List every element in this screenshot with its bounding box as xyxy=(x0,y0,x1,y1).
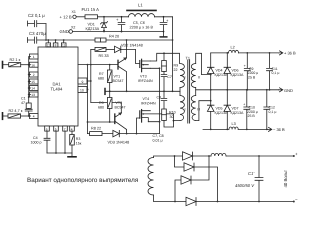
pin 10 xyxy=(78,87,87,93)
diode VD1 xyxy=(86,16,108,32)
svg-text:1000 p: 1000 p xyxy=(31,141,42,145)
diode VD4 xyxy=(207,53,228,90)
terminal X2 GND xyxy=(60,25,164,34)
diode VD7 xyxy=(224,90,244,131)
svg-text:R2 1 к: R2 1 к xyxy=(10,58,21,62)
capacitor C5 xyxy=(116,16,125,33)
svg-text:680: 680 xyxy=(98,106,104,110)
capacitor C11 0.1u xyxy=(267,52,280,91)
svg-text:BC547: BC547 xyxy=(115,105,126,109)
resistor R9 680 chain x=109.7 xyxy=(98,91,112,123)
svg-text:+: + xyxy=(295,152,298,157)
wire VT4 drain to transformer bottom xyxy=(174,114,181,121)
svg-text:+: + xyxy=(244,64,247,68)
wire primary center tap xyxy=(179,88,181,96)
svg-text:C3 470μ: C3 470μ xyxy=(29,31,46,36)
node GND arrow xyxy=(279,88,294,93)
resistor R2 1k (to pin 16) xyxy=(3,58,31,68)
svg-text:VD6: VD6 xyxy=(232,69,239,73)
svg-text:11: 11 xyxy=(62,44,66,48)
pin 9 xyxy=(78,78,87,84)
transformer T1 core xyxy=(188,60,190,123)
svg-text:C7, C8: C7, C8 xyxy=(153,134,164,138)
svg-text:R3: R3 xyxy=(76,137,81,141)
fuse FU1 15A xyxy=(82,7,129,19)
wire +12V distribution line y=40 xyxy=(46,39,173,41)
wire secondary center tap xyxy=(195,88,197,96)
wire -36V rail xyxy=(203,128,268,130)
ground symbol primary xyxy=(160,31,167,37)
svg-text:R2 4,7 к: R2 4,7 к xyxy=(9,109,23,113)
variant inductor L xyxy=(211,153,226,156)
svg-text:22: 22 xyxy=(174,68,178,72)
svg-text:КД213А: КД213А xyxy=(231,73,245,77)
svg-text:FU1 15 A: FU1 15 A xyxy=(82,7,100,12)
diode VD6 xyxy=(224,52,244,91)
variant rectifier diode D4 xyxy=(154,195,294,206)
svg-text:R9: R9 xyxy=(99,101,104,105)
transistor Q1 VT1 BC547 xyxy=(113,39,128,91)
node -36 arrow xyxy=(268,127,286,132)
svg-text:R5 33: R5 33 xyxy=(99,54,109,58)
pin 6 (bottom) xyxy=(45,126,50,131)
wire pin 7 down xyxy=(64,131,66,153)
transformer T1 primary winding bottom (I) xyxy=(180,96,186,121)
snubber R9 22 + C7 xyxy=(161,52,178,91)
wire variant top rail xyxy=(154,156,294,158)
wire pin10 stub xyxy=(86,89,89,91)
wire GND rail xyxy=(196,89,279,91)
svg-text:16: 16 xyxy=(31,63,35,67)
variant rectifier diode D2 xyxy=(175,156,218,202)
wire pin1 link xyxy=(29,56,31,64)
wire VT3/VT4 source bus x=159.5 xyxy=(148,68,159,133)
svg-text:C4: C4 xyxy=(33,136,38,140)
pin 16 xyxy=(30,62,39,67)
svg-text:12: 12 xyxy=(47,44,51,48)
svg-text:GND: GND xyxy=(284,88,293,93)
wire left vertical bus x=28.7 xyxy=(28,65,30,97)
variant transformer winding xyxy=(148,158,154,196)
terminal X1 +12V xyxy=(60,10,86,19)
svg-text:L1: L1 xyxy=(138,3,143,8)
node + output xyxy=(293,155,295,157)
svg-text:10: 10 xyxy=(80,89,84,93)
svg-text:14: 14 xyxy=(31,87,35,91)
capacitor C9 2200u xyxy=(244,52,259,91)
svg-text:+ 12 В: + 12 В xyxy=(60,14,72,19)
wire secondary bottom end to VD5 row xyxy=(196,101,211,121)
wire vertical x=87.5 (pin10 feed down) xyxy=(87,65,89,134)
svg-text:C8: C8 xyxy=(157,95,162,99)
transistor Q2 VT2 BC547 xyxy=(115,101,127,134)
diode VD3 1N4148 xyxy=(108,130,130,144)
inductor L2 xyxy=(229,46,239,53)
svg-text:L2: L2 xyxy=(231,46,235,50)
svg-text:0,1 μ: 0,1 μ xyxy=(269,110,277,114)
wire ground bus under IC xyxy=(47,152,72,154)
inductor L1 with core xyxy=(127,3,156,17)
svg-text:2: 2 xyxy=(33,73,35,77)
svg-text:2200 μ x 16 В: 2200 μ x 16 В xyxy=(130,25,154,29)
pin 12 xyxy=(46,43,51,48)
pin 8 xyxy=(53,43,58,48)
svg-text:13: 13 xyxy=(31,93,35,97)
capacitor C1 + resistor R1 chain (pin3 compensation) xyxy=(21,96,32,116)
svg-text:КД213А: КД213А xyxy=(86,27,100,31)
capacitor C2 xyxy=(28,13,47,27)
pin 2 xyxy=(30,72,39,77)
svg-text:II: II xyxy=(198,76,200,80)
svg-text:L3: L3 xyxy=(232,122,236,126)
pin 4 xyxy=(30,114,39,119)
svg-text:9: 9 xyxy=(82,80,84,84)
pin 1 xyxy=(30,54,39,59)
capacitor C6 xyxy=(130,16,170,32)
svg-text:VD2 1N4148: VD2 1N4148 xyxy=(121,44,143,48)
svg-text:25 В: 25 В xyxy=(248,114,256,118)
svg-text:X1: X1 xyxy=(72,10,76,14)
node pin15 xyxy=(29,81,31,83)
node pin14 xyxy=(29,87,31,89)
transistor Q3 VT3 IRFZ44N (mosfet) xyxy=(138,59,153,83)
resistor R4 4.7k (to pin 4) xyxy=(3,109,31,119)
svg-text:25 В: 25 В xyxy=(248,75,256,79)
svg-text:VD7: VD7 xyxy=(232,107,239,111)
wire row D y=133.6 (gate drive low side) xyxy=(88,133,160,135)
svg-text:VD5: VD5 xyxy=(216,107,223,111)
svg-text:680: 680 xyxy=(98,77,104,81)
svg-text:I: I xyxy=(185,76,186,80)
wire VT2 collector link row y=102.6 xyxy=(91,81,122,113)
svg-text:−: − xyxy=(295,197,298,202)
svg-text:30: 30 xyxy=(170,115,174,119)
node - output xyxy=(293,201,295,203)
wire C2-C3 junction to +12V bus xyxy=(45,24,47,40)
diode VD5 xyxy=(207,89,228,130)
ground symbol under IC xyxy=(68,153,76,157)
transformer T1 secondary winding top (II) xyxy=(191,64,200,88)
svg-text:40 Вольт: 40 Вольт xyxy=(283,170,288,188)
variant capacitor C1' xyxy=(235,155,263,202)
pin 13 xyxy=(30,92,39,97)
svg-text:R4 20: R4 20 xyxy=(109,35,119,39)
svg-text:VD4: VD4 xyxy=(216,69,223,73)
snubber C8 + R10 22 xyxy=(157,90,176,127)
svg-text:+: + xyxy=(243,103,246,107)
svg-text:КД213А: КД213А xyxy=(231,111,245,115)
resistor R8 22 (gate) xyxy=(90,127,102,136)
pin 11 xyxy=(61,43,66,48)
resistor R4 20 (collector load VT1) xyxy=(95,35,119,43)
svg-text:4: 4 xyxy=(33,115,35,119)
svg-text:VD3 1N4148: VD3 1N4148 xyxy=(108,141,130,145)
wire secondary top end to VD4 anode row xyxy=(196,53,211,74)
resistor R7 680 (base-emitter VT1) xyxy=(98,64,112,93)
svg-text:1: 1 xyxy=(33,55,35,59)
svg-text:BC547: BC547 xyxy=(113,79,124,83)
wire +36V rail xyxy=(211,52,279,54)
capacitor C3 xyxy=(28,31,47,43)
wire L1 out to corner xyxy=(155,16,173,18)
svg-text:15: 15 xyxy=(31,80,35,84)
svg-text:IRFZ44N: IRFZ44N xyxy=(141,102,156,106)
wire row A base VT1 y=64.6 xyxy=(78,64,118,66)
wire gate riser VT4 xyxy=(137,118,140,134)
svg-text:8: 8 xyxy=(55,44,57,48)
transformer T1 secondary winding bottom (III) xyxy=(191,96,200,121)
svg-text:GND: GND xyxy=(60,29,69,34)
inductor L3 xyxy=(229,122,238,129)
svg-text:C1': C1' xyxy=(248,171,254,176)
pin 4a (bottom) xyxy=(70,126,75,131)
wire pin11 stub xyxy=(63,40,65,43)
node pin13 xyxy=(29,94,31,96)
capacitor C12 0.1u xyxy=(264,89,277,130)
diode VD2 1N4148 xyxy=(115,44,143,64)
pin 5 (bottom) xyxy=(54,126,59,131)
svg-text:C7: C7 xyxy=(167,75,172,79)
variant rectifier diode D1 xyxy=(192,152,194,160)
transistor Q4 VT4 IRFZ44N (mosfet) xyxy=(140,97,174,122)
svg-text:4500/50 V: 4500/50 V xyxy=(235,183,255,188)
svg-text:R8 22: R8 22 xyxy=(91,127,101,131)
capacitor C4 1000p (pin 6) xyxy=(31,131,51,153)
wire +12V vertical feed to transformer center tap xyxy=(172,17,174,92)
node +36 arrow xyxy=(279,51,297,56)
wire pin 5 down xyxy=(55,131,57,153)
capacitor C10 2200u xyxy=(243,89,258,130)
wire VT3 drain to transformer top xyxy=(150,53,179,63)
wire pin8 stub xyxy=(55,40,57,43)
svg-text:I: I xyxy=(185,108,186,112)
svg-text:X2: X2 xyxy=(71,25,75,29)
svg-text:47: 47 xyxy=(21,101,25,105)
wire pin12 stub xyxy=(47,40,49,43)
wire VT2 base row y=122 xyxy=(88,121,115,123)
variant rectifier diode D3 xyxy=(175,156,209,202)
svg-text:+ 36 В: + 36 В xyxy=(284,51,296,56)
svg-text:15к: 15к xyxy=(76,142,82,146)
transformer T1 primary winding top (I) xyxy=(180,64,186,88)
svg-text:0,1 μ: 0,1 μ xyxy=(272,71,280,75)
wire emitter row VT1 to transformer center y=91.3 xyxy=(104,89,106,95)
svg-text:+: + xyxy=(116,17,119,22)
pin 15 xyxy=(30,79,39,84)
svg-text:Вариант однополярного выпрямит: Вариант однополярного выпрямителя xyxy=(27,177,138,184)
svg-text:0,01 μ: 0,01 μ xyxy=(153,139,163,143)
svg-text:− 36 В: − 36 В xyxy=(273,127,285,132)
pin 7 (bottom) xyxy=(63,126,68,131)
resistor R3 15k (pin 4 soft start) xyxy=(70,131,82,153)
op-amp/PWM controller U1 DA1 TL494 body xyxy=(38,47,78,126)
svg-text:TL494: TL494 xyxy=(51,87,64,92)
wire vertical x=90.8 (pin9 feed up to gate row) xyxy=(90,49,92,81)
svg-text:IRFZ44N: IRFZ44N xyxy=(138,79,153,83)
svg-text:C2 0,1 μ: C2 0,1 μ xyxy=(28,13,45,18)
node pin2 xyxy=(29,74,31,76)
resistor R5 33 + gate row VT3 xyxy=(91,47,115,58)
svg-text:C1: C1 xyxy=(21,97,26,101)
svg-text:R7: R7 xyxy=(99,72,104,76)
pin 14 xyxy=(30,86,39,91)
wire pin9 stub xyxy=(87,80,91,82)
